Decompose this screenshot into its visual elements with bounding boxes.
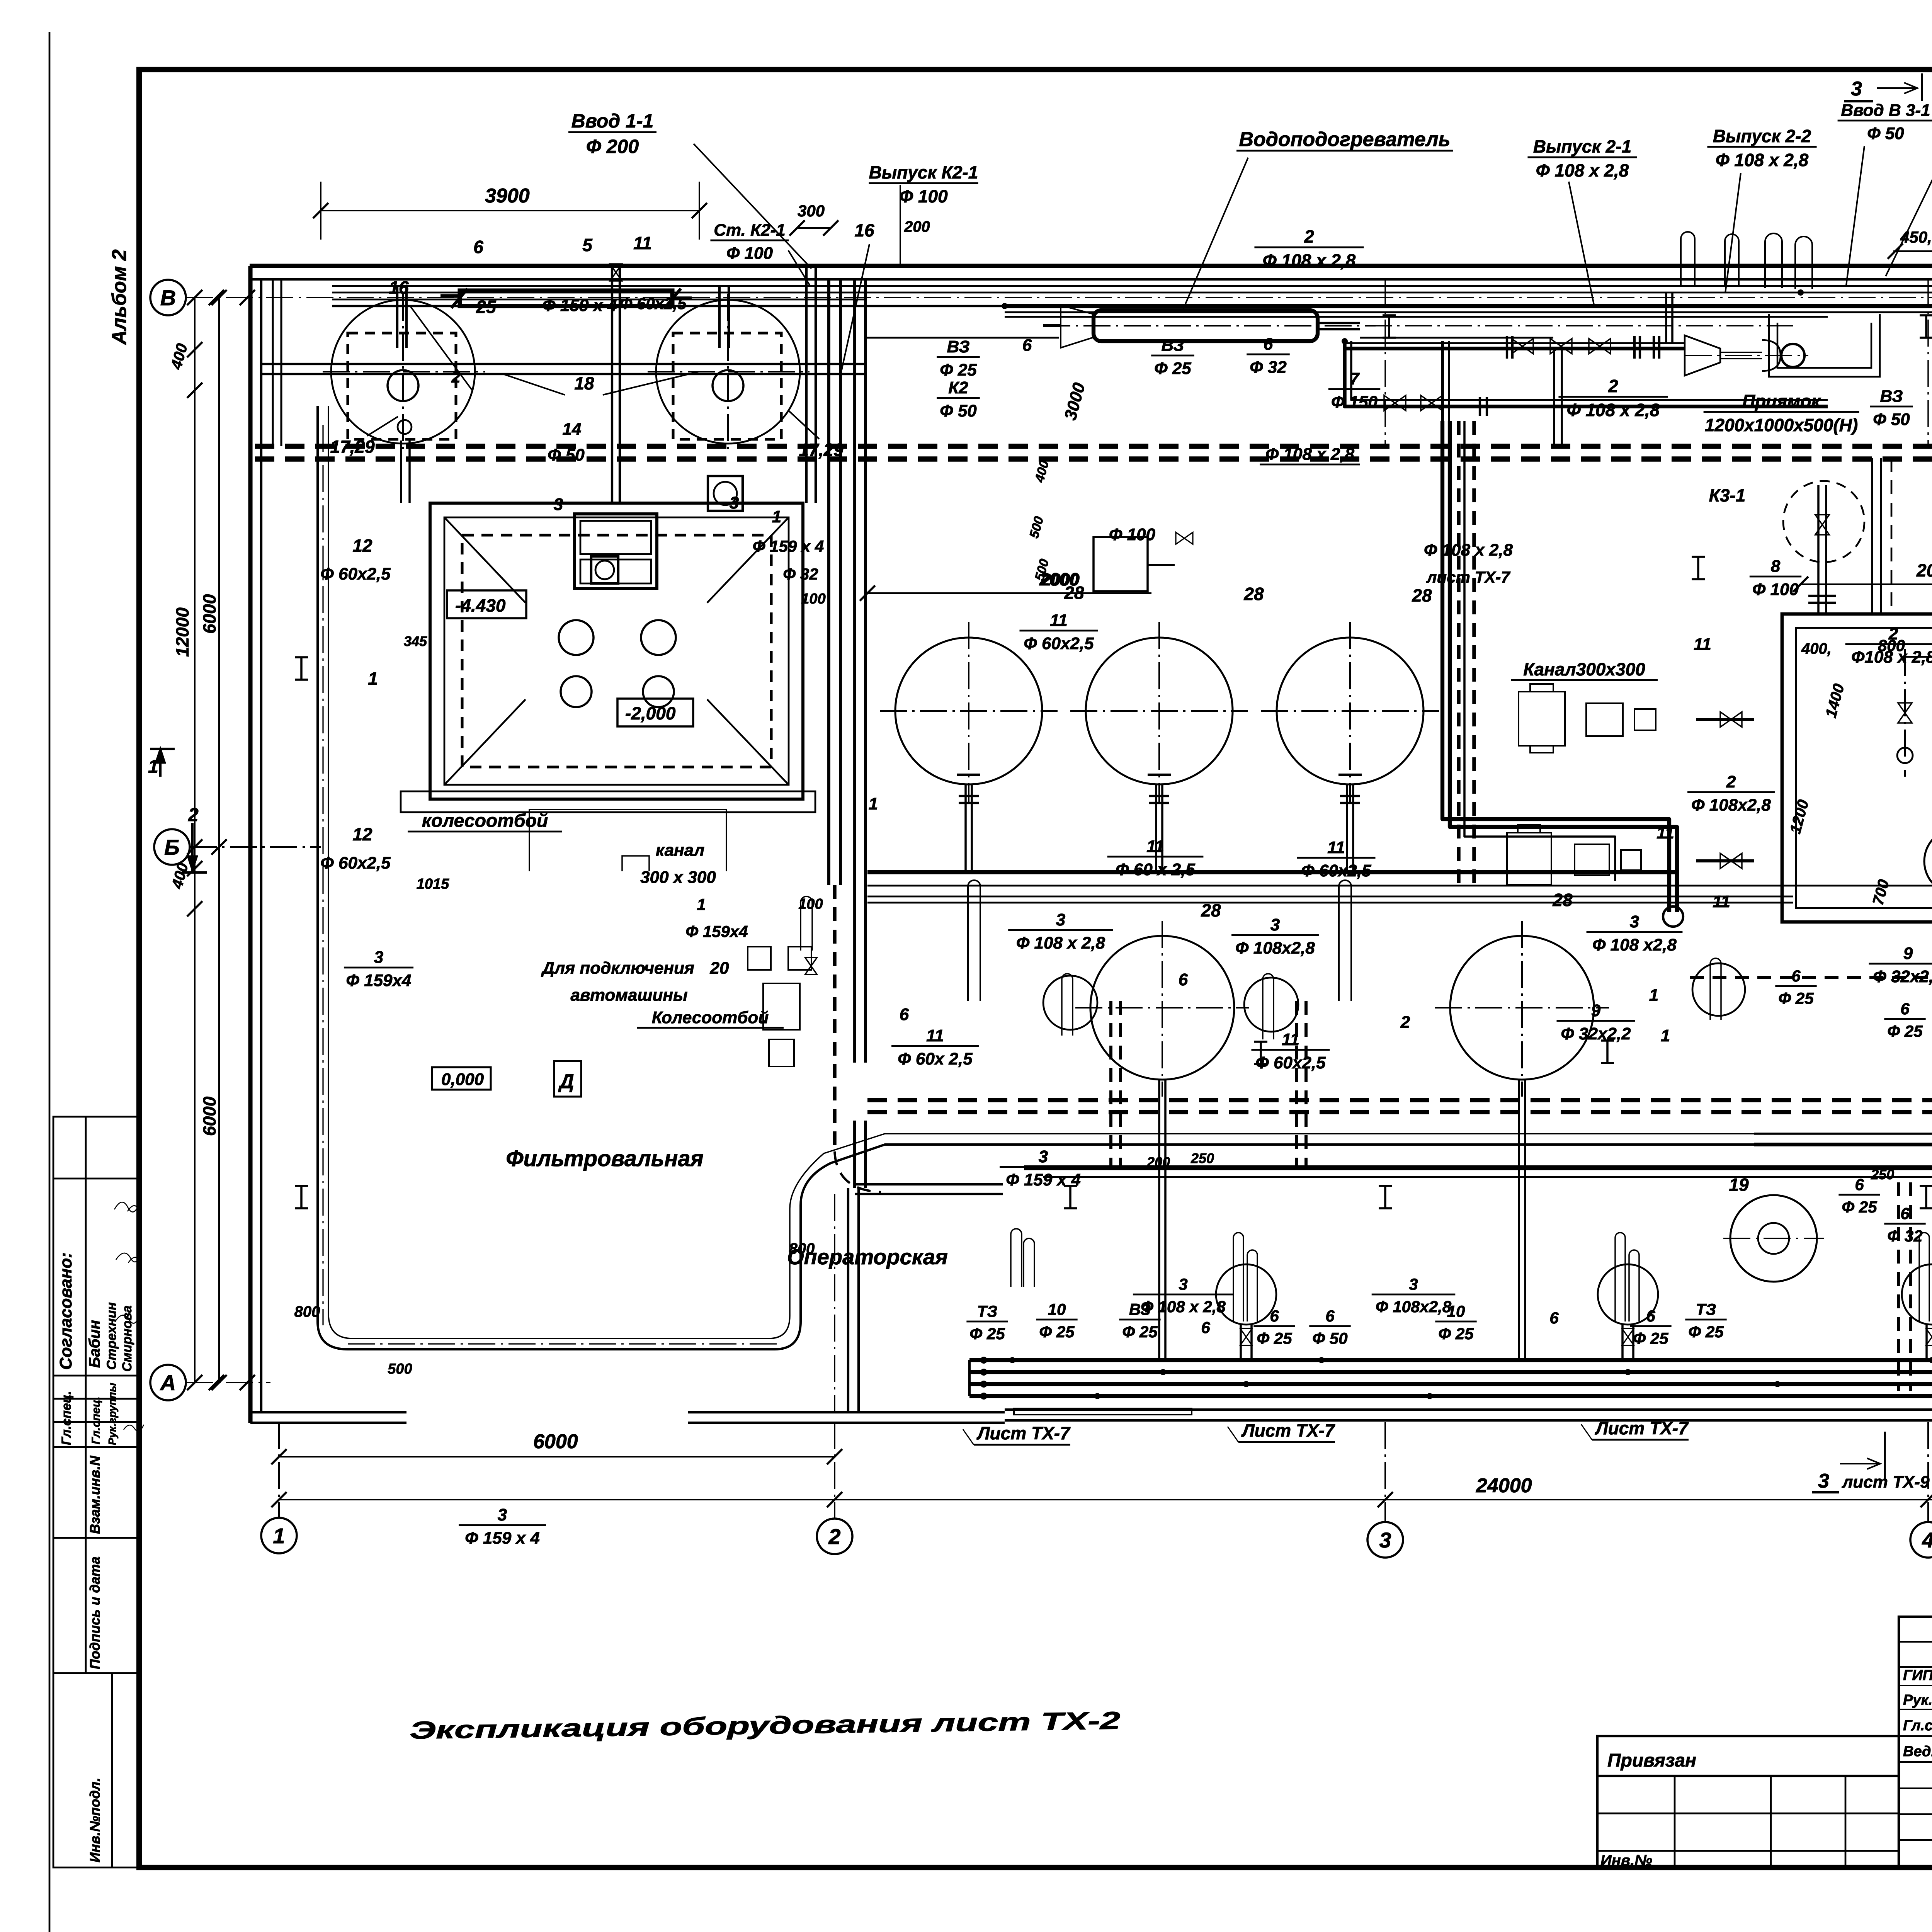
grid row circle Б [154,829,190,865]
grid circle 4 [1910,1522,1932,1558]
svg-text:Ф 108 х 2,8: Ф 108 х 2,8 [1016,934,1105,952]
canal top corridor dashed south edge [255,444,1932,449]
svg-text:11: 11 [926,1026,944,1045]
basin feed pipes top [1871,458,1873,614]
hydrant symbols near canal [801,896,812,951]
svg-text:Гл.спец.: Гл.спец. [90,1396,102,1444]
svg-text:800: 800 [294,1303,320,1320]
column I symbol [1920,1185,1932,1187]
svg-text:Ф 150: Ф 150 [1331,393,1378,412]
dim 2000 left [867,592,1151,594]
equipment 9 square [1094,537,1148,591]
vertical risers bundle center [1441,341,1444,421]
svg-text:19: 19 [1729,1175,1749,1195]
svg-text:Ф 108 х 2,8: Ф 108 х 2,8 [1536,160,1629,180]
svg-text:6: 6 [1900,1000,1910,1018]
leader 16 right [842,244,869,370]
pit -4.430 outer rect [430,503,803,799]
tank risers to collector [964,785,967,872]
pipe pair top-left inside wall [272,279,274,446]
svg-text:20: 20 [710,959,729,978]
svg-text:500: 500 [388,1361,412,1377]
svg-text:7: 7 [1350,369,1360,388]
svg-text:Стрехнин: Стрехнин [104,1302,119,1370]
section mark 1 arrow [159,748,162,777]
bottom pipe bundle line3 [969,1382,1932,1386]
corridor pipe run 5 [1005,316,1828,318]
small connector circles bottom [980,1357,987,1364]
signature table [1899,1617,1932,1867]
svg-text:Ф 25: Ф 25 [1154,359,1191,378]
svg-text:Гл.спец.: Гл.спец. [59,1391,74,1445]
water heater axis [1043,325,1376,327]
svg-text:2: 2 [1400,1013,1410,1032]
svg-text:Инв.№: Инв.№ [1600,1852,1652,1869]
pump cluster A lower [1507,825,1641,885]
svg-text:3: 3 [1179,1275,1187,1293]
svg-text:200: 200 [904,218,930,235]
basin center marks [1904,649,1906,777]
svg-text:Рук.бр.: Рук.бр. [1903,1692,1932,1708]
svg-text:3: 3 [730,493,739,512]
grid circle 1 [261,1518,297,1553]
capsule riser 1 [968,880,980,1001]
svg-text:12: 12 [352,824,372,844]
risers from lower tanks down [1158,1080,1160,1168]
svg-text:Лист ТХ-7: Лист ТХ-7 [1241,1420,1335,1440]
priyamok rect [1769,314,1880,377]
column I symbol [1064,1185,1077,1187]
pipe pair under collector [867,896,1793,898]
leader Выпуск 2-2 [1725,173,1741,293]
svg-text:3: 3 [374,948,383,967]
signature scribbles left table [114,1202,141,1323]
drop pipes from corridor [1665,293,1667,343]
junction dots corridor [1798,289,1804,296]
corridor centerline В [603,297,1932,298]
svg-text:лист ТХ-7: лист ТХ-7 [1426,568,1510,586]
left dim line 12000 [194,298,196,1383]
svg-text:Альбом 2: Альбом 2 [108,249,131,345]
svg-text:Д: Д [558,1070,574,1093]
svg-text:К3-1: К3-1 [1709,485,1746,505]
small square node mid [591,556,618,583]
tank 28 lower [1450,936,1594,1080]
priyamok flanges [1506,336,1508,359]
grid row circle А [150,1365,186,1400]
flotation unit 19 circle [1730,1195,1817,1282]
svg-text:Ф 159 х 4: Ф 159 х 4 [1006,1170,1080,1189]
svg-text:Ф 108х2,8: Ф 108х2,8 [1235,939,1315,957]
tank 17,29 right circle [656,300,800,444]
corridor pipe run 2 [332,292,1932,294]
leader Водоподогреватель [1182,158,1248,311]
svg-text:3: 3 [1270,915,1280,934]
riser circle tank2 south [1244,978,1298,1032]
left risers to corridor [611,267,613,503]
leader Ввод Б-1 [1886,113,1932,276]
column I symbol [295,656,308,658]
svg-text:Ф 25: Ф 25 [1633,1329,1668,1347]
svg-text:2: 2 [828,1524,840,1549]
tank 28 lower [1090,936,1234,1080]
svg-text:Ф 100: Ф 100 [726,244,773,263]
svg-text:Взам.инв.N: Взам.инв.N [87,1455,103,1534]
svg-text:6: 6 [1179,970,1188,989]
svg-text:250: 250 [1190,1150,1214,1166]
column I symbol [1379,1185,1392,1187]
svg-text:Ф 159х4: Ф 159х4 [346,971,412,990]
svg-text:11: 11 [1694,635,1711,654]
svg-text:2: 2 [451,368,460,386]
basin outer rect [1782,614,1932,922]
small square on canal right tank [708,476,743,511]
svg-text:17,29: 17,29 [330,437,375,457]
svg-text:24000: 24000 [1476,1475,1532,1497]
svg-text:200: 200 [1146,1154,1170,1170]
wall left outer [248,266,252,1423]
corridor pipe y874 segs [866,337,1059,339]
svg-text:Подпись и дата: Подпись и дата [87,1556,103,1669]
svg-text:6: 6 [1201,1318,1210,1337]
svg-text:Ф 108 х 2,8: Ф 108 х 2,8 [1567,400,1660,420]
leader 18 double [503,374,565,395]
svg-text:Ф 50: Ф 50 [940,401,977,420]
svg-text:300 х 300: 300 х 300 [640,868,716,887]
pipe tank1 to pit [400,440,402,503]
flanged pipe into pumps [1696,718,1754,721]
valve pair on left risers [610,264,622,281]
tank 28 upper [1086,638,1233,784]
svg-text:300: 300 [798,202,825,220]
svg-text:6: 6 [900,1005,909,1024]
svg-text:12000: 12000 [172,607,192,657]
vent capsules above priyamok [1765,233,1782,288]
svg-text:Ф 60х2,5: Ф 60х2,5 [1301,861,1371,880]
equipment 2 rect [575,514,657,588]
svg-text:1: 1 [1661,1026,1670,1045]
scribble inv [124,1425,144,1431]
svg-text:Инв.№подл.: Инв.№подл. [87,1778,103,1862]
bottom pipe bundle line4 [969,1394,1932,1398]
column I symbol [1254,1041,1267,1043]
dashed vertical bottom strip 1 [1897,1182,1900,1391]
svg-text:11: 11 [1656,823,1674,842]
svg-text:Бабин: Бабин [86,1320,103,1368]
svg-text:колесоотбой: колесоотбой [422,811,548,831]
collector thin line [867,885,1932,887]
dashed vertical near tank risers [1109,1001,1112,1168]
svg-text:Ф 108 х 2,8: Ф 108 х 2,8 [1265,445,1355,464]
svg-text:ВЗ: ВЗ [1880,387,1903,406]
svg-text:Ф 32: Ф 32 [1887,1227,1922,1245]
svg-text:автомашины: автомашины [570,986,687,1005]
svg-text:2000: 2000 [1916,560,1932,580]
dim 3900 [321,210,699,211]
svg-text:Ввод 1-1: Ввод 1-1 [571,110,654,132]
ejector assembly mid [1685,335,1720,376]
svg-text:Ф 32х2,2: Ф 32х2,2 [1873,967,1932,986]
elevation box -4.430 [447,590,526,618]
svg-text:Ф 50: Ф 50 [1867,124,1904,143]
corridor pipe run 1 [332,285,1932,287]
bundle junction dots bottom [1009,1357,1015,1363]
riser circle under tank1 [1043,976,1097,1030]
svg-text:1: 1 [869,794,878,813]
svg-text:11: 11 [1146,837,1164,856]
K3-1 manhole circle [1783,481,1864,562]
svg-text:Ф 108 х 2,8: Ф 108 х 2,8 [1424,541,1513,560]
riser circle at 4448 [1692,963,1745,1016]
svg-text:канал: канал [656,841,704,860]
svg-text:3: 3 [1039,1147,1048,1166]
bundle start verticals [968,1360,971,1396]
svg-text:2: 2 [1888,624,1898,643]
vertical pipe x2087 [805,266,808,503]
svg-text:8: 8 [1771,557,1781,576]
svg-text:28: 28 [1412,585,1432,605]
svg-text:К2: К2 [948,378,968,397]
leader Ст.К2-1 [788,250,811,287]
leader 17,29 right [788,410,819,439]
svg-text:6000: 6000 [199,1096,219,1136]
elevation box -2.000 [617,699,693,726]
svg-text:Выпуск 2-1: Выпуск 2-1 [1533,136,1631,156]
svg-text:6: 6 [1900,1204,1910,1223]
svg-text:Ф 25: Ф 25 [1039,1323,1075,1341]
svg-text:345: 345 [404,633,427,649]
svg-text:лист ТХ-9: лист ТХ-9 [1842,1473,1930,1492]
svg-text:Выпуск 2-2: Выпуск 2-2 [1713,126,1811,146]
corridor extra pipe line [1005,311,1932,313]
svg-text:Ф 60х2,5: Ф 60х2,5 [1255,1053,1326,1072]
leader 17,29 left [367,417,398,436]
svg-text:3900: 3900 [485,185,530,207]
tank 17,29 left circle [331,300,475,444]
svg-text:Ф 108х2,8: Ф 108х2,8 [1376,1298,1452,1316]
svg-text:5: 5 [582,235,593,255]
svg-text:Ф 159х4: Ф 159х4 [685,922,748,940]
svg-text:9: 9 [1903,944,1913,963]
basin circle left [1924,828,1932,894]
flange pair on S pipe [1479,397,1481,416]
wall bottom segment 2 [688,1411,1005,1413]
svg-text:Ф 32х2,2: Ф 32х2,2 [1561,1024,1631,1043]
svg-text:Ф 159 х 4: Ф 159 х 4 [465,1529,539,1548]
grid circle 2 [817,1519,852,1554]
leader Выпуск К2-1 [900,185,901,265]
big pipe loop left vertical [318,406,1754,1349]
svg-text:9: 9 [1591,1001,1601,1020]
svg-text:Лист ТХ-7: Лист ТХ-7 [976,1423,1071,1443]
svg-text:Ф 25: Ф 25 [1778,989,1814,1007]
wall bottom left segment [250,1411,406,1413]
svg-text:0,000: 0,000 [441,1070,484,1089]
svg-text:18: 18 [574,373,594,393]
svg-text:1: 1 [1649,986,1658,1005]
left dim line 6000 upper [218,298,220,1383]
wheel guard rect upper [401,791,815,812]
hall bottom wall thick [1024,1165,1932,1170]
svg-text:Канал300х300: Канал300х300 [1523,659,1645,679]
svg-text:Лист ТХ-7: Лист ТХ-7 [1595,1418,1689,1438]
svg-text:3: 3 [1379,1528,1391,1552]
svg-text:Ф 108 х 2,8: Ф 108 х 2,8 [1716,150,1809,170]
svg-text:Привязан: Привязан [1607,1750,1696,1771]
svg-text:-2,000: -2,000 [625,703,676,723]
pit inner rect [444,517,789,785]
svg-text:100: 100 [798,896,823,912]
pipe S from heater [1345,341,1828,406]
svg-text:-4.430: -4.430 [455,595,506,616]
vypusk 2-2 riser capsule [1725,234,1739,287]
svg-text:6: 6 [1325,1307,1335,1325]
svg-text:Водоподогреватель: Водоподогреватель [1239,128,1450,151]
bottom pipe bundle line1 [969,1358,1932,1362]
svg-text:28: 28 [1552,890,1573,910]
column I symbol [295,1185,308,1187]
svg-text:Ф 32: Ф 32 [783,565,818,583]
svg-text:4: 4 [1922,1528,1932,1552]
svg-text:100: 100 [801,591,825,607]
svg-text:800: 800 [789,1240,815,1257]
corridor south wall left part [261,363,866,365]
svg-text:6: 6 [1549,1309,1559,1327]
tank right center circle [713,370,743,401]
capsule risers bottom left cluster [1011,1229,1022,1287]
svg-text:Фильтровальная: Фильтровальная [506,1146,703,1171]
canal mid dashed row lower [867,1110,1932,1114]
corridor pipe run 4 [332,305,1005,307]
canal top corridor dashed second [255,456,1932,461]
riser pair x4032 [1553,350,1555,448]
wall bottom right long segment [1005,1408,1932,1411]
svg-text:Ф 25: Ф 25 [1842,1198,1877,1216]
riser into left tank [396,286,398,348]
svg-text:11: 11 [1282,1030,1299,1049]
wall top inner [250,278,1932,281]
svg-text:Ф 50: Ф 50 [1312,1329,1347,1347]
valve near F100 [1176,532,1193,544]
svg-text:ВЗ: ВЗ [947,337,970,356]
tank 28 upper [895,638,1042,784]
elevation 0.000 box [432,1067,491,1090]
pit bottom rect [529,810,726,871]
svg-text:Ф 60х2,5: Ф 60х2,5 [320,565,391,583]
tank left center circle [388,370,418,401]
svg-text:6: 6 [473,237,483,257]
collector under upper tanks thick [867,870,1677,874]
svg-text:Ф 60 х 2,5: Ф 60 х 2,5 [1116,860,1195,879]
svg-text:3: 3 [1409,1275,1418,1293]
leader 16 left [410,305,472,390]
column I symbol [1920,314,1932,316]
svg-text:11: 11 [633,233,652,253]
svg-text:1: 1 [273,1524,285,1548]
svg-text:28: 28 [1243,584,1264,604]
dim lines inside basin [1905,656,1932,658]
svg-text:Ф 159 х 4: Ф 159 х 4 [753,537,824,555]
pit circles lower pair [561,676,592,707]
section mark 2 arrow [191,823,194,871]
svg-text:6000: 6000 [533,1430,578,1453]
svg-text:Ф 50: Ф 50 [1873,410,1910,429]
svg-text:Ф 25: Ф 25 [1257,1329,1292,1347]
grid tick [209,290,224,305]
privyazan table [1597,1736,1899,1867]
grid verticals to circles [278,1422,280,1518]
canal mid dashed row upper [867,1098,1932,1102]
corridor dash-dot axis mid [1043,325,1793,327]
riser cluster circles bottom [1216,1264,1276,1325]
tank 28 upper [1277,638,1423,784]
grid row circle В [150,280,186,315]
pipe 3 F159x4 main to right [1754,1133,1932,1135]
misc flange ticks upper tanks [957,774,980,776]
corridor pipe run thick [1005,304,1932,308]
svg-text:Ф 60х2,5: Ф 60х2,5 [1024,634,1094,653]
heavy pipe assembly top-left [460,291,672,306]
svg-text:2: 2 [1726,772,1736,791]
grid line А dash-dot [186,1382,270,1383]
pit corner diagonals [444,517,526,603]
grid line В dash-dot [186,297,603,298]
outer thin border left [49,32,51,1932]
svg-text:Рук.группы: Рук.группы [106,1383,118,1445]
svg-text:Б: Б [164,835,180,859]
marker D box [554,1061,581,1097]
svg-text:Ф108 х 2,8: Ф108 х 2,8 [1851,648,1932,667]
svg-text:11: 11 [1327,838,1345,857]
grid dim line bottom 24000 [279,1499,1932,1500]
valves on S pipe [1384,395,1406,410]
svg-text:Ф 60х2,5: Ф 60х2,5 [620,294,687,313]
svg-text:Гл.спец: Гл.спец [1903,1718,1932,1734]
svg-text:1: 1 [368,668,378,689]
svg-text:1: 1 [148,757,158,777]
dashed row F25 below basin [1690,976,1932,979]
fuel unit 20 [748,947,811,1066]
wheel guard rect bottom [1014,1408,1192,1415]
left stamp column boxes [53,1117,138,1867]
svg-text:3: 3 [1056,910,1065,929]
svg-text:400,: 400, [1801,640,1832,657]
svg-text:Колесоотбой: Колесоотбой [652,1008,769,1027]
wall top outer [250,264,1932,268]
svg-text:3: 3 [1851,78,1862,100]
second L pipe segment [1464,421,1615,881]
extend lower tank risers to bundle [1158,1168,1160,1360]
riser stubs to bundle [1240,1325,1242,1360]
svg-text:16: 16 [389,277,409,298]
svg-text:Выпуск К2-1: Выпуск К2-1 [869,162,978,182]
svg-text:6: 6 [1646,1307,1655,1325]
svg-text:Ввод В 3-1: Ввод В 3-1 [1841,101,1930,120]
svg-text:3: 3 [498,1505,507,1524]
svg-text:1: 1 [697,895,706,913]
svg-text:Ф 25: Ф 25 [1688,1323,1724,1341]
loop centerline [322,425,323,1325]
svg-text:Ф 100: Ф 100 [899,186,948,206]
svg-text:6: 6 [1264,335,1273,354]
svg-text:Приямок: Приямок [1742,391,1821,411]
svg-text:250: 250 [1871,1167,1894,1182]
leader Ввод В 3-1 [1846,146,1864,285]
svg-text:1015: 1015 [417,876,449,892]
svg-text:2: 2 [1304,226,1314,247]
svg-text:В: В [160,286,176,310]
column I symbol [1692,556,1705,558]
